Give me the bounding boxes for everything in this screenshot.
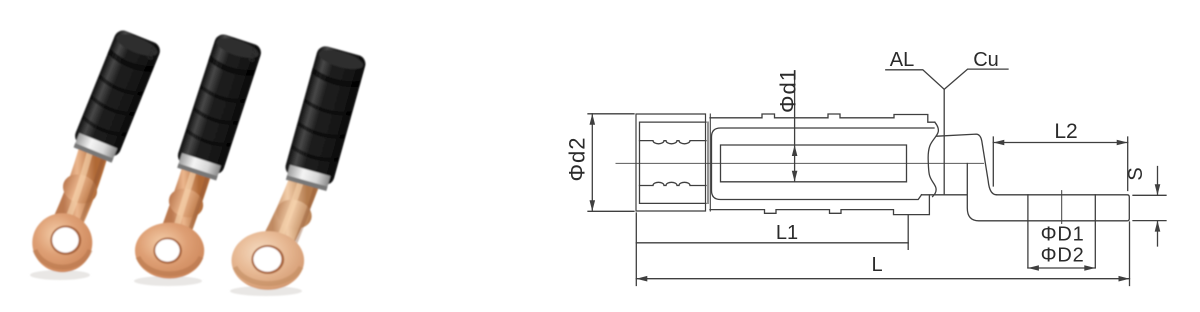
lug 2 barrel [174,32,263,181]
lug 3 ring palm [231,231,304,290]
collar/barrel boundary double line [708,114,710,211]
bore slot (rounded cavity) [712,128,935,200]
lug 3 silver band [286,165,330,190]
lug 1 ring hole [50,226,81,255]
svg-text:S: S [1125,167,1147,180]
left collar thread line top [640,141,707,144]
left collar thread line bottom [640,182,707,185]
palm hole edge line right [1094,195,1096,268]
Cu neck top edge [937,134,997,195]
svg-text:ΦD2: ΦD2 [1041,245,1085,267]
ground shadow under ring 2 [134,276,202,286]
svg-text:L1: L1 [776,222,798,244]
Cu neck bottom edge [922,194,967,196]
lug 3 crimp bulge [273,195,316,232]
Cu label underline and leader [944,69,1008,89]
lug 1 barrel [70,28,162,164]
dim Phi-d1 line with arrows [794,75,796,182]
dim S arrows [1157,167,1159,247]
svg-text:L: L [871,254,882,276]
lug 2 silver band [178,153,221,179]
dim Phi-d2 line with arrows [591,114,593,212]
lug 3 ring hole [251,245,284,274]
centerline [616,162,984,164]
lug 1 ring palm [32,213,92,272]
ground shadow under ring 1 [30,270,90,280]
svg-text:L2: L2 [1054,120,1077,143]
AL main barrel bottom profile with tabs [710,195,929,215]
AL label underline and leader [886,70,944,195]
dim L2 extension lines [993,137,1127,191]
lug 2 neck shading [188,170,209,236]
svg-text:AL: AL [890,49,914,71]
lug 2 ring hole [153,238,182,264]
svg-text:ΦD1: ΦD1 [1041,224,1085,246]
palm hole edge line left [1027,195,1029,268]
svg-text:Cu: Cu [973,49,999,71]
lug 3 barrel [282,44,367,192]
lug 3 copper neck [273,175,307,250]
lug 1 neck shading [81,152,105,222]
dim S extension lines [1133,195,1166,220]
lug 1 silver band [74,133,117,161]
lug 2 crimp bulge [165,184,207,222]
palm hole centerline tick [1061,191,1063,224]
AL/Cu weld interface wavy line [928,122,938,196]
AL barrel left collar inner bore [640,122,707,203]
dim L line with arrows [636,278,1129,280]
dim L2 line with arrows [993,142,1127,144]
Cu palm outline [967,164,1129,221]
svg-text:Φd2: Φd2 [565,136,590,181]
lug 3 neck shading [295,181,317,244]
AL barrel left collar outline [636,114,706,211]
svg-text:Φd1: Φd1 [776,68,801,113]
lug 1 crimp bulge [59,169,102,208]
dim PhiD line with arrows [1028,267,1095,269]
dim L1 line [636,242,908,244]
inner liner bore rectangle [721,145,907,182]
ground shadow under ring 3 [230,286,302,296]
lug 2 copper neck [172,164,199,242]
lug 1 copper neck [64,146,95,230]
dim L right extension line [1129,222,1131,286]
dim Phi-d2 extension lines [588,114,634,212]
AL main barrel top profile with tabs [710,114,935,122]
dim L1 extension lines [636,213,908,286]
lug 2 ring palm [135,223,204,279]
